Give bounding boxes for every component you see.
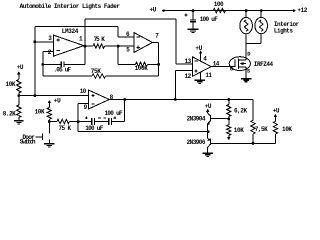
resistor R6 75K label	[91, 68, 102, 75]
node junction ramp	[77, 120, 80, 123]
wire caps up to rail	[124, 100, 126, 122]
capacitor C4 plates	[109, 118, 112, 125]
svg-text:100K: 100K	[135, 65, 149, 72]
node bias divider	[17, 94, 20, 97]
lamp L1 lead bottom	[245, 34, 247, 44]
wire base drive	[78, 131, 208, 133]
wire U1C output to gate	[211, 66, 235, 68]
resistor R8 75 K label	[59, 125, 72, 132]
wire 75K2 right	[106, 75, 159, 77]
wire pin3 input	[35, 41, 54, 43]
transistor Q3 source internal	[238, 67, 246, 70]
capacitor C3 + mark	[85, 116, 88, 119]
svg-text:7,5K: 7,5K	[255, 126, 268, 133]
pin 1 label	[79, 35, 83, 42]
resistor R5 100K	[118, 62, 159, 66]
svg-text:+U: +U	[54, 97, 61, 104]
node junction lamp1 tap	[245, 9, 248, 12]
wire R3 to ground	[18, 118, 20, 121]
svg-text:10K: 10K	[282, 126, 292, 133]
wire +U rail	[170, 10, 291, 12]
resistor R6 75K	[92, 74, 106, 78]
resistor R1 100 ohm	[213, 8, 225, 12]
svg-text:4: 4	[203, 56, 207, 63]
label Switch	[20, 139, 36, 146]
wire R7 to node	[48, 119, 50, 121]
switch contact	[35, 134, 42, 141]
resistor R3 8.2K label	[3, 110, 16, 117]
op-amp U1C plus	[195, 69, 198, 72]
resistor R10 10K	[227, 119, 231, 135]
pin 2 label	[48, 49, 52, 56]
svg-text:Switch: Switch	[20, 139, 36, 146]
op-amp U1A plus	[57, 38, 60, 41]
lamp L2	[255, 17, 268, 33]
door divider supply arrow	[48, 100, 52, 108]
wire pin13 input	[176, 63, 192, 65]
pin 5 label	[126, 46, 130, 53]
op-amp U1A minus	[57, 49, 60, 51]
wire bias node to box	[19, 95, 35, 97]
svg-text:10K: 10K	[35, 108, 45, 115]
node junction 7.5K/rail	[252, 142, 255, 145]
wire +U rail arrow (left)	[162, 9, 171, 13]
wire op2 out down	[158, 43, 160, 77]
pin 8 label	[110, 94, 114, 101]
wire R10 arrow down	[227, 135, 231, 140]
svg-text:2N3904: 2N3904	[187, 116, 206, 123]
transistor Q1 2N3904 label	[187, 116, 206, 123]
resistor R10 10K label	[234, 127, 244, 134]
node junction door/75K	[48, 120, 51, 123]
wire Q1 emitter down	[207, 124, 209, 132]
wire C2 right up to out	[84, 46, 86, 64]
svg-text:75K: 75K	[91, 68, 102, 75]
wire op2 out	[152, 42, 158, 44]
svg-text:1: 1	[79, 35, 83, 42]
wire bottom rail	[213, 142, 276, 144]
wire emitters join	[207, 132, 209, 139]
resistor R4 75K	[93, 44, 105, 48]
wire pin9 down	[77, 104, 79, 132]
wire pin9 input	[78, 103, 88, 105]
wire op1 out	[84, 45, 93, 47]
svg-text:100: 100	[214, 1, 224, 8]
resistor R12 10K	[273, 121, 277, 134]
op-amp U1A label LM324	[62, 28, 79, 35]
svg-text:+U: +U	[195, 45, 202, 52]
node junction C1 tap	[192, 9, 195, 12]
pin 4 label	[203, 56, 207, 63]
op-amp U1A	[54, 35, 84, 56]
wire caps left	[78, 121, 92, 123]
wire pin2 loop down	[42, 52, 44, 76]
transistor Q3 body arrow	[240, 62, 247, 65]
transistor Q2 2N3906 label	[187, 139, 206, 146]
wire pin6 input	[118, 36, 134, 38]
pin 6 label	[126, 31, 130, 38]
svg-text:100 uF: 100 uF	[105, 110, 124, 117]
resistor R5 100K label	[135, 65, 149, 72]
svg-text:+U: +U	[273, 108, 280, 115]
node junction caps up	[123, 98, 126, 101]
wire 75K2 left	[43, 75, 92, 77]
svg-text:Lights: Lights	[274, 28, 294, 35]
wire box corner to pin6	[117, 27, 119, 37]
transistor Q3 gate bar	[234, 59, 236, 67]
node junction base/6.2K/10K	[227, 118, 230, 121]
pin D label	[247, 51, 251, 58]
wire op1 out up	[84, 19, 86, 46]
resistor R4 75K label	[94, 36, 106, 43]
node junction rail/pin12	[174, 98, 177, 101]
wire R4 to pin5	[105, 45, 135, 47]
svg-text:2: 2	[48, 49, 52, 56]
pin 13 label	[185, 58, 192, 65]
svg-text:LM324: LM324	[62, 28, 79, 35]
svg-text:75 K: 75 K	[59, 125, 72, 132]
wire 6.2K to node	[228, 117, 230, 119]
wire between caps	[95, 121, 109, 123]
wire ramp rail	[109, 99, 253, 101]
resistor R1 100 value	[214, 1, 224, 8]
pin 12 label	[185, 73, 192, 80]
wire caps right	[112, 121, 125, 123]
capacitor C2 .05uF	[43, 62, 85, 68]
node junction lamp2 tap	[260, 9, 263, 12]
node junction cap loop	[41, 63, 44, 66]
+U label (pin 4)	[195, 45, 202, 52]
wire Q2 collector to gnd	[207, 147, 209, 153]
wire Q1 base to divider	[220, 118, 229, 120]
svg-text:+U: +U	[150, 7, 157, 14]
resistor R7 10K label	[35, 108, 45, 115]
svg-text:6,2K: 6,2K	[234, 108, 247, 115]
+U label (left divider)	[17, 64, 24, 71]
resistor R2 10K label	[6, 81, 16, 88]
resistor R9 6.2K	[227, 105, 231, 117]
wire 7.5K bottom	[252, 134, 254, 143]
pin 3 label	[48, 35, 52, 42]
right supply arrow	[274, 114, 278, 121]
capacitor C4 value 100 uF	[105, 110, 124, 117]
+U label (door divider)	[54, 97, 61, 104]
resistor R12 10K label	[282, 126, 292, 133]
wire pin12 down to rail	[174, 70, 176, 99]
resistor R11 7.5K label	[255, 126, 268, 133]
svg-text:75 K: 75 K	[94, 36, 106, 43]
op-amp U1D minus	[91, 103, 94, 105]
lamp L2 lead bottom	[260, 34, 262, 44]
op-amp U1B minus	[137, 36, 140, 38]
transistor Q3 label IRFZ44	[254, 61, 274, 68]
svg-text:+U: +U	[205, 103, 212, 110]
node junction box/bias	[34, 94, 37, 97]
svg-text:11: 11	[205, 72, 212, 79]
svg-text:5: 5	[126, 46, 130, 53]
transistor Q3 drain internal	[238, 57, 246, 60]
transistor Q1 2N3904	[208, 113, 221, 125]
wire 100K left vert	[117, 46, 119, 64]
capacitor C1 lead top	[192, 11, 194, 20]
svg-text:Automobile Interior Lights Fad: Automobile Interior Lights Fader	[20, 3, 121, 10]
lamp L1 lead top	[245, 11, 247, 18]
pin 11 lead	[200, 72, 202, 80]
resistor R3 8.2K	[17, 105, 21, 118]
resistor R7 10K	[47, 108, 51, 120]
wire box left edge	[34, 27, 36, 96]
ground (Q2)	[202, 153, 213, 156]
label Door	[22, 134, 35, 141]
node junction out/100K	[157, 63, 160, 66]
wire source to ground	[245, 71, 247, 79]
capacitor C1 lead bottom	[192, 22, 194, 29]
transistor Q3 channel bar	[237, 59, 239, 69]
ground (pin 11)	[195, 80, 206, 83]
node +12 label	[297, 7, 307, 14]
svg-text:9: 9	[84, 104, 88, 111]
label Interior Lights	[274, 21, 300, 35]
wire R2 to node	[18, 93, 20, 96]
resistor R11 7.5K	[251, 120, 255, 134]
svg-text:7: 7	[155, 33, 159, 40]
capacitor C3/C4 minus marks	[98, 117, 106, 119]
wire R12 bottom	[274, 134, 276, 143]
node +U supply label (top)	[150, 7, 157, 14]
pin 10 label	[80, 88, 87, 95]
lamp L1	[240, 17, 253, 33]
node junction emitters	[207, 130, 210, 133]
capacitor C4 + mark	[113, 116, 116, 119]
wire 6.2K top	[228, 100, 230, 105]
svg-text:10: 10	[80, 88, 87, 95]
pin 7 label	[155, 33, 159, 40]
capacitor C1 + mark	[185, 13, 188, 16]
wire lamp to drain	[245, 44, 247, 58]
op-amp U1D plus	[91, 94, 94, 97]
wire lamp join	[246, 43, 261, 45]
resistor R8 75K	[49, 119, 78, 123]
svg-text:+12: +12	[297, 7, 307, 14]
wire box top edge	[35, 26, 118, 28]
pin 4 supply arrow	[199, 50, 203, 61]
wire 7.5K top	[252, 100, 254, 121]
title	[20, 3, 121, 10]
svg-text:IRFZ44: IRFZ44	[254, 61, 274, 68]
left divider supply arrow	[17, 71, 21, 79]
capacitor C1 value 100 uF	[200, 16, 219, 23]
op-amp U1B	[134, 33, 152, 53]
op-amp U1C	[193, 57, 212, 76]
op-amp U1D	[89, 90, 110, 109]
svg-text:10K: 10K	[234, 127, 244, 134]
capacitor C2 value	[54, 67, 72, 74]
svg-text:2N3906: 2N3906	[187, 139, 206, 146]
wire ramp top vertical	[175, 19, 177, 64]
pin 11 label	[205, 72, 212, 79]
svg-text:10K: 10K	[6, 81, 16, 88]
push-pull supply arrow	[206, 109, 210, 113]
svg-text:100 uF: 100 uF	[85, 125, 104, 132]
resistor R2 10K	[17, 80, 21, 94]
svg-text:12: 12	[185, 73, 192, 80]
transistor Q2 2N3906	[208, 138, 213, 147]
svg-text:.05 uF: .05 uF	[54, 67, 72, 74]
op-amp U1C minus	[195, 60, 198, 62]
pin 9 label	[84, 104, 88, 111]
pin S label	[247, 67, 251, 74]
ground (door switch)	[44, 144, 55, 147]
wire pin12 input	[175, 69, 192, 71]
svg-text:100 uF: 100 uF	[200, 16, 219, 23]
+U label (push-pull)	[205, 103, 212, 110]
transistor Q3 IRFZ44 body	[229, 57, 250, 71]
ground (C1)	[188, 29, 199, 32]
svg-text:8.2K: 8.2K	[3, 110, 16, 117]
wire node to R3	[18, 96, 20, 105]
resistor R9 6.2K label	[234, 108, 247, 115]
svg-text:+U: +U	[17, 64, 24, 71]
node junction 6.2K tap	[227, 98, 230, 101]
lamp L2 lead top	[260, 11, 262, 18]
svg-text:3: 3	[48, 35, 52, 42]
+U label (right)	[273, 108, 280, 115]
op-amp U1B plus	[137, 46, 140, 49]
capacitor C3 value 100 uF	[85, 125, 104, 132]
node junction pin3	[33, 40, 36, 43]
node junction 100K/pin5	[117, 45, 120, 48]
node junction op1 out	[84, 45, 87, 48]
ground (R3)	[14, 121, 23, 124]
wire bias to pin10	[35, 95, 89, 97]
pin 14 label	[213, 60, 220, 67]
pin G label	[230, 66, 234, 73]
ground (Q3 source)	[241, 79, 252, 82]
wire op1-out top run	[85, 18, 176, 20]
capacitor C3 plates	[92, 118, 95, 125]
wire +12 arrow (right)	[291, 9, 297, 13]
wire pin2 input	[43, 51, 54, 53]
wire door sw down	[48, 122, 50, 144]
capacitor C1 plates	[190, 20, 196, 22]
